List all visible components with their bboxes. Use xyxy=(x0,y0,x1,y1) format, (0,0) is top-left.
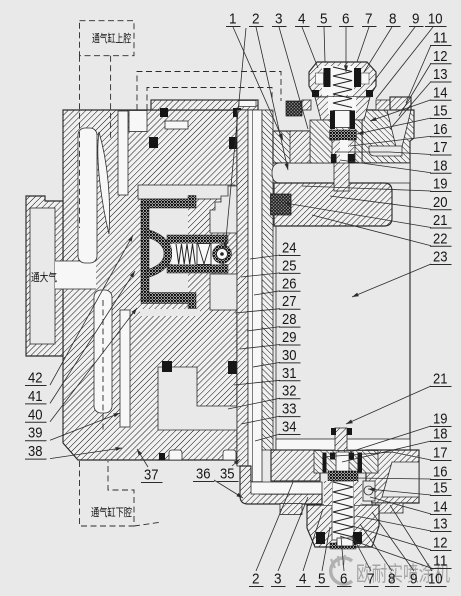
cup bottom stipple xyxy=(330,543,356,549)
leader r10 xyxy=(390,505,432,571)
leader b12 xyxy=(352,526,431,550)
leader 24 xyxy=(250,255,280,259)
leader 14 xyxy=(370,100,431,121)
svg-text:38: 38 xyxy=(28,443,43,460)
leader 9 xyxy=(371,27,415,85)
leader 20 xyxy=(330,196,431,209)
svg-text:13: 13 xyxy=(433,516,448,533)
label 12 xyxy=(430,48,452,65)
cap side notch R xyxy=(361,73,369,84)
label 6 xyxy=(339,11,354,28)
b seal c xyxy=(349,453,354,460)
label 39 xyxy=(25,425,47,442)
leader 28 xyxy=(247,327,280,331)
channel upper-left vertical xyxy=(78,128,97,263)
svg-text:2: 2 xyxy=(252,571,260,588)
label 27 xyxy=(279,293,301,310)
bottom stipple bar xyxy=(328,471,358,481)
svg-text:16: 16 xyxy=(433,121,448,138)
clamp plate thick end xyxy=(390,97,411,110)
svg-text:6: 6 xyxy=(340,571,348,588)
bolt right xyxy=(223,450,236,460)
upper chamber above diaphragm xyxy=(138,185,235,199)
leader 25 xyxy=(241,273,280,277)
stem top seal R xyxy=(347,428,352,435)
chamber right of diaphragm upper staircase xyxy=(210,186,237,233)
leader r3 xyxy=(278,497,308,571)
svg-text:通气缸上腔: 通气缸上腔 xyxy=(92,31,131,45)
seal dot left of bolt xyxy=(159,453,165,460)
svg-text:16: 16 xyxy=(433,464,448,481)
leader 22 xyxy=(312,215,431,246)
pot interior floor white band xyxy=(276,439,410,450)
svg-text:14: 14 xyxy=(433,84,448,101)
stem seal R xyxy=(348,154,355,163)
svg-text:42: 42 xyxy=(28,370,43,387)
lid seal square xyxy=(271,194,292,215)
body spring xyxy=(176,244,195,264)
svg-text:24: 24 xyxy=(282,240,297,257)
foot right xyxy=(372,503,403,513)
leader 33 xyxy=(241,416,280,424)
bottom valve stem xyxy=(335,428,347,451)
main valve body block xyxy=(63,110,237,460)
svg-text:25: 25 xyxy=(282,257,297,274)
channel slot lower mid xyxy=(120,310,130,427)
stem seal L xyxy=(331,154,337,163)
bottom wedge notch xyxy=(382,462,419,497)
label 10 xyxy=(425,11,447,28)
label 17 xyxy=(430,445,452,462)
label 9 xyxy=(407,571,422,588)
label 26 xyxy=(279,275,301,292)
label 37 xyxy=(141,467,163,484)
label 5 xyxy=(315,571,330,588)
leader b11 xyxy=(340,536,431,568)
bottom funnel column xyxy=(363,481,375,501)
pot liner line xyxy=(275,226,277,450)
svg-text:33: 33 xyxy=(282,401,297,418)
spring channel lower bar xyxy=(167,265,228,274)
leader b21 xyxy=(346,386,431,424)
pot top flange left xyxy=(273,131,312,163)
label 4 xyxy=(295,11,310,28)
svg-text:17: 17 xyxy=(433,139,448,156)
channel lower-left vertical xyxy=(94,290,112,413)
leader r8 xyxy=(360,524,392,571)
seal S2 xyxy=(233,108,241,117)
label 16 xyxy=(430,464,452,481)
svg-text:35: 35 xyxy=(220,466,235,483)
diaphragm top bar xyxy=(141,196,196,209)
label 36 xyxy=(193,466,215,483)
label 17 xyxy=(430,139,452,156)
svg-text:32: 32 xyxy=(282,383,297,400)
bottom valve spring xyxy=(333,482,353,537)
svg-text:11: 11 xyxy=(433,30,448,47)
label 18 xyxy=(430,157,452,174)
bottom left block xyxy=(240,466,322,504)
seal S6 xyxy=(228,361,239,374)
svg-text:3: 3 xyxy=(274,571,282,588)
leader r6 xyxy=(341,537,344,571)
cup seal L xyxy=(316,532,325,544)
label 16 xyxy=(430,121,452,138)
svg-text:28: 28 xyxy=(282,311,297,328)
label 32 xyxy=(279,383,301,400)
label 1 xyxy=(226,11,241,28)
label 9 xyxy=(409,11,424,28)
leader b15 xyxy=(368,488,431,495)
label 33 xyxy=(279,401,301,418)
label 35 xyxy=(217,466,239,483)
leader 31 xyxy=(234,380,280,385)
port passage xyxy=(55,261,96,289)
pot floor right xyxy=(366,450,419,503)
poppet knob xyxy=(213,245,232,264)
svg-text:30: 30 xyxy=(282,347,297,364)
label 22 xyxy=(430,230,452,247)
label 31 xyxy=(279,365,301,382)
label 5 xyxy=(317,11,332,28)
label 13 xyxy=(430,66,452,83)
chamber right of diaphragm lower xyxy=(210,274,237,310)
leader b17 xyxy=(322,452,431,460)
svg-text:1: 1 xyxy=(229,11,237,28)
svg-text:18: 18 xyxy=(433,157,448,174)
bottom spring col xyxy=(332,481,354,540)
leader b13 xyxy=(356,516,431,531)
svg-text:15: 15 xyxy=(433,103,448,120)
leader b14 xyxy=(370,497,431,514)
curved sliver wall xyxy=(98,132,110,234)
valve stem xyxy=(332,140,355,163)
svg-text:27: 27 xyxy=(282,293,297,310)
svg-text:21: 21 xyxy=(433,371,448,388)
label 28 xyxy=(279,311,301,328)
svg-text:9: 9 xyxy=(412,11,420,28)
top valve cap xyxy=(309,62,376,97)
seat stipple bar xyxy=(330,130,357,140)
svg-text:4: 4 xyxy=(298,11,306,28)
leader 34 xyxy=(255,434,280,441)
svg-text:12: 12 xyxy=(433,535,448,552)
top valve spring xyxy=(333,67,352,108)
bottom cup xyxy=(307,505,379,547)
label 2 xyxy=(249,11,264,28)
label 11 xyxy=(430,553,452,570)
lid disc xyxy=(274,183,392,226)
label 38 xyxy=(25,443,47,460)
leader 15 xyxy=(357,118,431,135)
chamber below diaphragm xyxy=(140,309,200,316)
leader 37 xyxy=(137,449,148,467)
svg-text:37: 37 xyxy=(144,467,159,484)
leader 10 xyxy=(376,27,433,99)
watermark logo xyxy=(331,555,352,584)
seat seal col L xyxy=(330,111,335,130)
svg-text:2: 2 xyxy=(252,11,260,28)
cavity step right xyxy=(165,121,188,129)
label 40 xyxy=(25,406,47,423)
leader 26 xyxy=(254,291,280,295)
label 25 xyxy=(279,257,301,274)
leader 8 xyxy=(364,27,392,72)
leader 11 xyxy=(406,45,431,103)
svg-text:18: 18 xyxy=(433,426,448,443)
label 18 xyxy=(430,426,452,443)
leader r2 xyxy=(256,482,293,571)
left port flange frame xyxy=(26,196,63,356)
leader b16 xyxy=(355,478,431,479)
dashed drop x110 xyxy=(110,56,112,138)
dashed label box lower xyxy=(80,461,135,526)
svg-text:11: 11 xyxy=(433,553,448,570)
leader 4 xyxy=(302,27,318,68)
diaphragm left band xyxy=(141,204,149,300)
diaphragm bottom bar xyxy=(141,293,196,309)
label 42 xyxy=(25,370,47,387)
leader 1 xyxy=(233,27,283,140)
label 34 xyxy=(279,419,301,436)
leader 2 xyxy=(256,27,289,170)
bottom seat chamber xyxy=(336,452,349,472)
dashed rect outer top xyxy=(137,72,281,111)
leader 16 xyxy=(350,136,431,146)
label 15 xyxy=(430,480,452,497)
pot left wall strip B xyxy=(262,110,273,450)
clamp plate mid segment xyxy=(302,100,311,110)
svg-text:12: 12 xyxy=(433,48,448,65)
label 19 xyxy=(430,411,452,428)
label 4 xyxy=(296,571,311,588)
bottom seat plate xyxy=(314,451,378,474)
cap seal col R xyxy=(354,68,361,87)
dashed label box upper xyxy=(80,21,135,56)
svg-text:21: 21 xyxy=(433,212,448,229)
dashed rect inner top xyxy=(147,88,272,111)
label 7 xyxy=(364,571,379,588)
label 30 xyxy=(279,347,301,364)
b seal d xyxy=(358,453,363,473)
leader 41 xyxy=(50,271,135,403)
label 15 xyxy=(430,103,452,120)
label 13 xyxy=(430,516,452,533)
svg-text:41: 41 xyxy=(28,388,43,405)
b seal b xyxy=(330,453,335,460)
leader r9 xyxy=(372,512,414,571)
label 21 xyxy=(430,212,452,229)
pot annular gap xyxy=(248,110,262,482)
port flange window xyxy=(30,208,55,344)
leader 27 xyxy=(235,309,280,313)
svg-text:22: 22 xyxy=(433,230,448,247)
plate notch xyxy=(239,101,256,107)
pot floor left xyxy=(271,450,320,481)
seal S5 xyxy=(162,361,172,372)
top bumper seal xyxy=(286,101,302,116)
svg-text:26: 26 xyxy=(282,275,297,292)
label 8 xyxy=(385,571,400,588)
dashed line in channel xyxy=(102,300,104,430)
seat chamber xyxy=(334,111,352,128)
b seal a xyxy=(323,453,327,473)
diaphragm dome xyxy=(146,229,172,278)
svg-text:7: 7 xyxy=(367,571,375,588)
svg-text:13: 13 xyxy=(433,66,448,83)
label 14 xyxy=(430,499,452,516)
label 19 xyxy=(430,176,452,193)
pot top flange right xyxy=(362,110,414,163)
svg-text:15: 15 xyxy=(433,480,448,497)
gap band under flange xyxy=(272,163,410,183)
leader 38 xyxy=(50,447,122,459)
label 12 xyxy=(430,535,452,552)
leader 35 xyxy=(232,459,240,466)
cap rim dark R xyxy=(366,90,373,97)
svg-text:通大气: 通大气 xyxy=(31,270,57,284)
label 11 xyxy=(430,30,452,47)
top valve bowl xyxy=(315,97,370,120)
svg-text:19: 19 xyxy=(433,176,448,193)
label 14 xyxy=(430,84,452,101)
leader b19 xyxy=(350,426,431,452)
leader 17 xyxy=(335,152,431,155)
label 6 xyxy=(337,571,352,588)
label 29 xyxy=(279,329,301,346)
leader 29 xyxy=(240,345,280,350)
cup seal R xyxy=(353,532,362,544)
flange funnel notch xyxy=(387,110,411,151)
svg-text:5: 5 xyxy=(320,11,328,28)
stem extension into lid xyxy=(334,163,349,191)
svg-text:4: 4 xyxy=(299,571,307,588)
svg-text:29: 29 xyxy=(282,329,297,346)
dashed extension lower box xyxy=(134,522,162,526)
seat left wing xyxy=(290,131,310,163)
cavity under plate xyxy=(129,111,147,132)
cap interior white xyxy=(322,66,354,95)
svg-text:8: 8 xyxy=(389,11,397,28)
leader 40 xyxy=(50,308,137,422)
leader 1b xyxy=(224,28,246,249)
leader r5 xyxy=(322,527,330,571)
flange slot white xyxy=(369,146,402,156)
leader 3 xyxy=(279,27,308,129)
diaphragm cup interior white xyxy=(148,206,188,294)
spring channel upper bar xyxy=(167,235,228,244)
svg-text:20: 20 xyxy=(433,194,448,211)
leader 23 xyxy=(352,264,431,297)
label 20 xyxy=(430,194,452,211)
svg-text:14: 14 xyxy=(433,499,448,516)
channel slot upper mid xyxy=(118,111,128,195)
svg-text:9: 9 xyxy=(410,571,418,588)
leader 13 xyxy=(390,82,431,130)
bottom channel white xyxy=(251,482,322,494)
spring channel white xyxy=(172,244,221,265)
dashed drop x80 xyxy=(79,56,81,228)
leader 42 xyxy=(50,235,133,385)
svg-text:40: 40 xyxy=(28,406,43,423)
pot left wall strip A xyxy=(237,110,248,466)
cap seal col L xyxy=(324,68,331,87)
svg-text:7: 7 xyxy=(365,11,373,28)
label 24 xyxy=(279,240,301,257)
seal S4 xyxy=(229,137,239,149)
label 3 xyxy=(271,571,286,588)
svg-text:8: 8 xyxy=(388,571,396,588)
bottom valve side col L xyxy=(324,481,332,505)
svg-text:36: 36 xyxy=(196,466,211,483)
leader 5 xyxy=(324,27,325,62)
pot right wall xyxy=(409,163,411,503)
top valve seat xyxy=(310,120,362,163)
cap side notch L xyxy=(316,73,324,84)
label 2 xyxy=(249,571,264,588)
seat seal col R xyxy=(350,111,356,130)
bowl interior xyxy=(328,97,356,114)
piston box xyxy=(197,244,211,265)
label 10 xyxy=(425,571,447,588)
svg-text:5: 5 xyxy=(318,571,326,588)
svg-text:31: 31 xyxy=(282,365,297,382)
clamp plate right segment xyxy=(376,100,390,110)
svg-text:39: 39 xyxy=(28,425,43,442)
svg-text:34: 34 xyxy=(282,419,297,436)
cup bottom insert xyxy=(337,538,353,546)
svg-text:3: 3 xyxy=(275,11,283,28)
svg-text:17: 17 xyxy=(433,445,448,462)
label 41 xyxy=(25,388,47,405)
leader 7 xyxy=(357,27,369,62)
svg-text:通气缸下腔: 通气缸下腔 xyxy=(91,505,132,519)
leader 30 xyxy=(253,362,280,367)
leader 12 xyxy=(399,63,431,116)
leader r7 xyxy=(352,535,371,571)
bolt left xyxy=(169,450,182,460)
leader b18 xyxy=(342,441,431,462)
label 3 xyxy=(272,11,287,28)
leader 19 xyxy=(302,186,431,191)
label 21 xyxy=(430,371,452,388)
bottom funnel ball xyxy=(364,486,373,495)
seal S3 xyxy=(149,137,158,148)
leader 18 xyxy=(340,160,431,173)
svg-text:10: 10 xyxy=(428,11,443,28)
leader 6 xyxy=(344,27,348,72)
body top cover plate xyxy=(151,100,258,110)
cap rim dark L xyxy=(312,90,319,97)
leader 39 xyxy=(50,413,120,440)
label 8 xyxy=(386,11,401,28)
label 23 xyxy=(430,249,452,266)
seal dot right of bolt xyxy=(238,453,244,460)
leader 32 xyxy=(228,398,280,409)
svg-text:6: 6 xyxy=(342,11,350,28)
leader 21 xyxy=(285,202,431,227)
seal S1 xyxy=(160,108,168,117)
bottom valve side col R xyxy=(354,481,362,505)
leader r4 xyxy=(303,509,323,571)
stem top seal L xyxy=(331,428,336,435)
lower chamber L-cavity xyxy=(158,367,237,430)
svg-text:23: 23 xyxy=(433,249,448,266)
svg-text:10: 10 xyxy=(428,571,443,588)
leader 36 xyxy=(214,480,243,498)
foot left xyxy=(280,504,302,515)
label 7 xyxy=(362,11,377,28)
